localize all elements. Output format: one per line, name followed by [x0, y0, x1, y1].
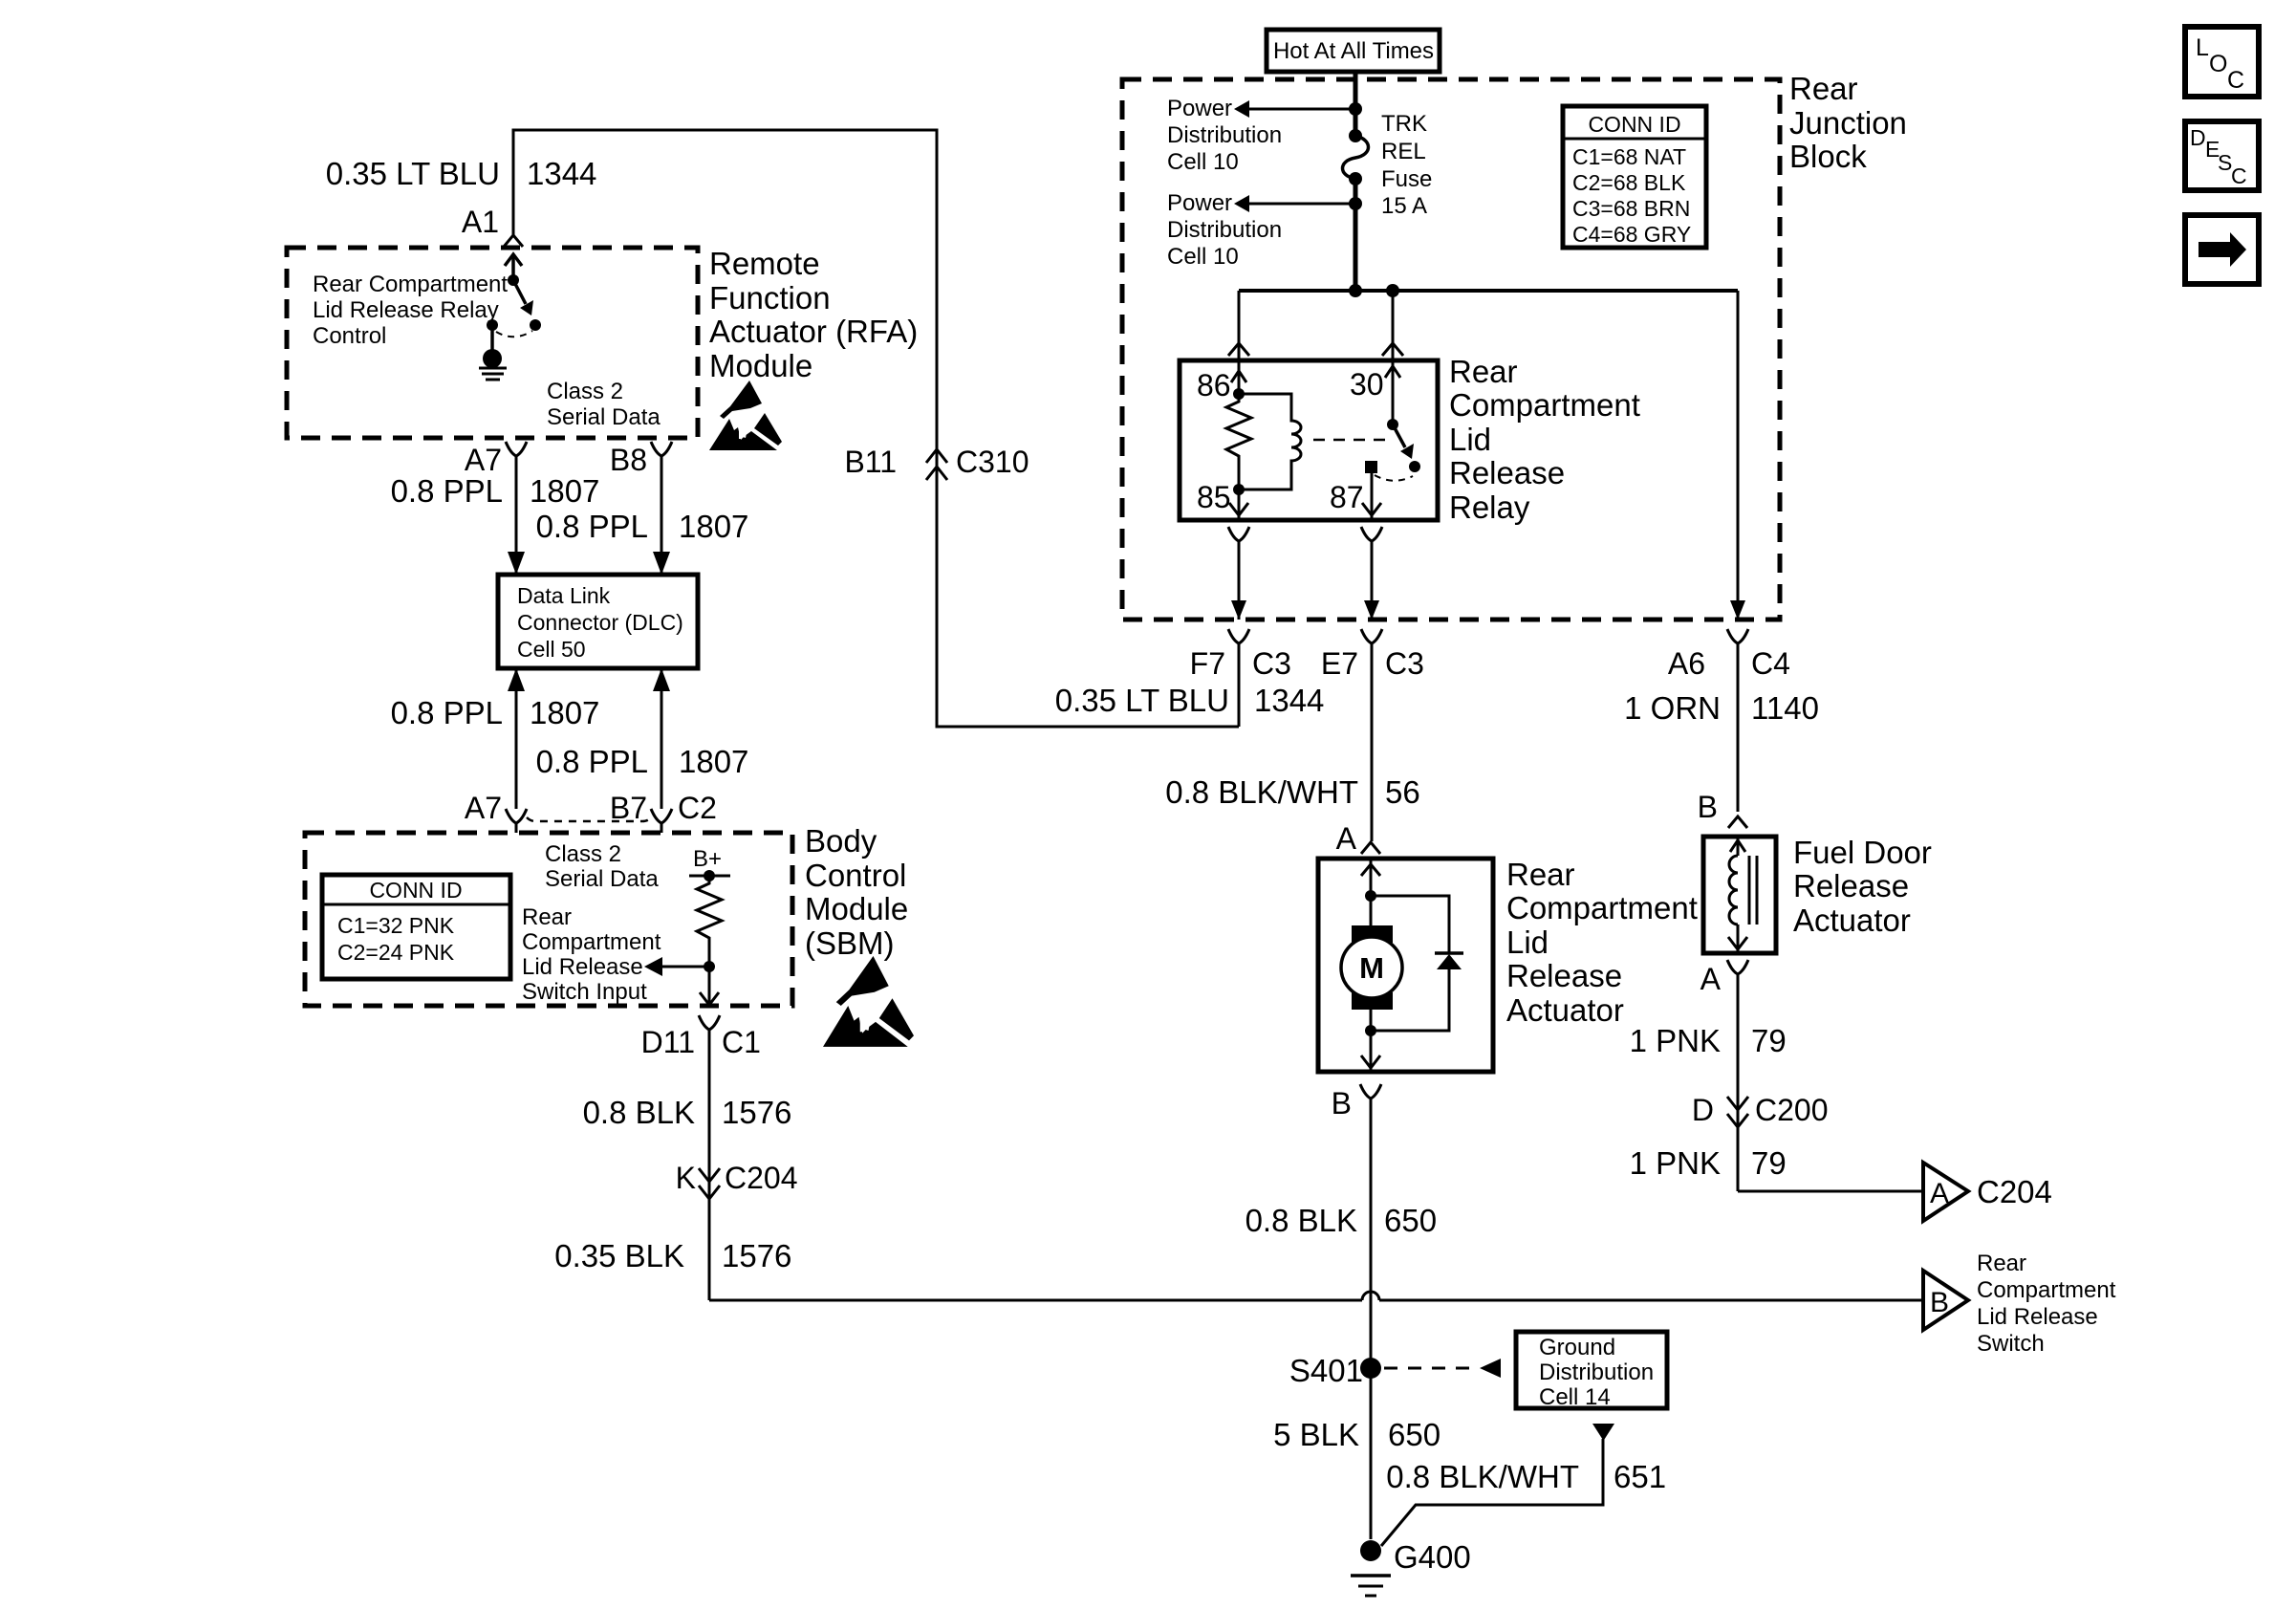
- wire switch feed (RFA): [505, 254, 522, 286]
- label 0.8 PPL 1807 (A7-DLC): [391, 473, 600, 509]
- dashed connector join (BCM C2): [527, 817, 651, 821]
- wire fuse to branch: [1354, 179, 1358, 293]
- connector B7 C2 (BCM): [610, 791, 717, 833]
- connector D C200: [1692, 1093, 1829, 1127]
- svg-text:Hot At All Times: Hot At All Times: [1273, 38, 1434, 64]
- svg-text:Fuse: Fuse: [1381, 166, 1432, 192]
- connector A7 (BCM): [465, 791, 527, 833]
- connector Y below relay 85: [1228, 527, 1249, 541]
- svg-text:0.35 BLK: 0.35 BLK: [554, 1238, 684, 1273]
- svg-text:Lid: Lid: [1449, 422, 1491, 457]
- svg-text:Relay: Relay: [1449, 490, 1530, 525]
- svg-text:Cell 50: Cell 50: [517, 637, 586, 662]
- ground distribution box: [1516, 1332, 1667, 1410]
- diode (actuator): [1365, 896, 1463, 1036]
- connector E7 C3: [1321, 629, 1424, 841]
- label relay name: [1449, 354, 1640, 525]
- wire branch bus: [1239, 284, 1738, 297]
- icon LOC box: [2185, 27, 2259, 97]
- svg-text:C204: C204: [725, 1161, 798, 1195]
- svg-text:Body: Body: [805, 823, 877, 859]
- label box Hot At All Times: [1267, 30, 1440, 72]
- dashed throw arc: [1375, 475, 1413, 481]
- connector triangle B switch: [1923, 1271, 1968, 1330]
- svg-text:CONN ID: CONN ID: [1588, 112, 1680, 137]
- svg-text:0.8 BLK: 0.8 BLK: [1245, 1203, 1357, 1238]
- svg-text:Lid Release: Lid Release: [1977, 1304, 2098, 1330]
- svg-text:CONN ID: CONN ID: [369, 878, 462, 903]
- connector D11 C1: [641, 1015, 761, 1300]
- label 0.35 LT BLU 1344 (F7): [1055, 683, 1325, 718]
- wire actuator feed: [1361, 859, 1380, 925]
- svg-text:Lid: Lid: [1506, 925, 1549, 960]
- dashed link coil to contacts: [1313, 439, 1386, 442]
- svg-text:REL: REL: [1381, 139, 1426, 164]
- label RFA module: [709, 246, 918, 383]
- svg-text:Power: Power: [1167, 96, 1232, 121]
- svg-text:0.8 PPL: 0.8 PPL: [391, 473, 503, 509]
- label 0.8 BLK 650: [1245, 1203, 1437, 1238]
- svg-text:Actuator: Actuator: [1506, 992, 1624, 1028]
- svg-text:A7: A7: [465, 443, 502, 477]
- svg-text:651: 651: [1614, 1459, 1666, 1494]
- svg-text:15 A: 15 A: [1381, 193, 1427, 219]
- dashed throw arc (RFA switch): [496, 331, 532, 337]
- ESD symbol (BCM): [823, 956, 914, 1047]
- label fuse: [1381, 111, 1432, 219]
- label class 2 serial data (BCM): [545, 841, 659, 892]
- svg-text:B: B: [1698, 790, 1718, 824]
- svg-text:Release: Release: [1449, 455, 1565, 490]
- connector B (actuator): [1332, 1084, 1381, 1539]
- label 1 ORN 1140: [1624, 690, 1819, 726]
- label 0.35 BLK 1576: [554, 1238, 791, 1273]
- icon arrow box: [2185, 215, 2259, 284]
- svg-text:Cell 10: Cell 10: [1167, 149, 1239, 175]
- svg-text:A: A: [1336, 821, 1357, 856]
- wire drop to relay 30: [1382, 291, 1403, 360]
- svg-text:(SBM): (SBM): [805, 925, 895, 961]
- wire B8 to DLC: [653, 456, 670, 575]
- svg-text:Release: Release: [1506, 958, 1622, 993]
- svg-text:D: D: [2190, 125, 2206, 150]
- svg-text:Actuator: Actuator: [1793, 903, 1911, 938]
- connector B8 (RFA): [610, 442, 672, 477]
- svg-text:C204: C204: [1977, 1174, 2052, 1209]
- wire BCM A7 to DLC: [508, 668, 525, 809]
- svg-text:Rear: Rear: [1977, 1251, 2026, 1276]
- ESD symbol (RFA): [709, 381, 782, 450]
- B+ terminal: [689, 846, 730, 881]
- svg-text:C2=24 PNK: C2=24 PNK: [337, 940, 455, 965]
- svg-text:1807: 1807: [530, 695, 599, 730]
- svg-text:87: 87: [1330, 480, 1364, 514]
- svg-text:C1=32 PNK: C1=32 PNK: [337, 913, 455, 938]
- svg-text:A: A: [1700, 962, 1722, 996]
- relay switch blade: [1393, 424, 1420, 472]
- svg-text:Rear: Rear: [1789, 71, 1858, 106]
- wire BCM D11 out: [700, 967, 719, 1006]
- svg-text:Ground: Ground: [1539, 1335, 1615, 1360]
- wire BCM B7 to DLC: [653, 668, 670, 809]
- svg-text:B8: B8: [610, 443, 647, 477]
- solenoid coil (fuel door): [1728, 837, 1757, 953]
- svg-text:C2: C2: [678, 791, 717, 825]
- label rear compartment lid release switch: [1977, 1251, 2116, 1357]
- svg-text:Compartment: Compartment: [1449, 387, 1640, 423]
- svg-text:Remote: Remote: [709, 246, 820, 281]
- svg-text:D: D: [1692, 1093, 1714, 1127]
- svg-text:Compartment: Compartment: [522, 929, 661, 955]
- label 1 PNK 79 (upper): [1630, 1023, 1787, 1058]
- svg-text:1807: 1807: [679, 509, 748, 544]
- dashed reference to ground distribution: [1384, 1359, 1501, 1378]
- label 0.8 PPL 1807 (DLC-BCM B7): [536, 744, 749, 779]
- svg-text:0.8 BLK/WHT: 0.8 BLK/WHT: [1165, 774, 1358, 810]
- wire relay 85 out: [1229, 490, 1248, 520]
- svg-text:C3: C3: [1252, 646, 1291, 681]
- fuse TRK REL 15A: [1343, 136, 1369, 179]
- wire to C204 triangle: [1738, 1190, 1923, 1193]
- svg-text:0.8 BLK: 0.8 BLK: [583, 1095, 695, 1130]
- node switch input: [704, 961, 715, 972]
- connector chevron B (fuel door): [1728, 816, 1747, 828]
- svg-text:1 ORN: 1 ORN: [1624, 690, 1721, 726]
- motor M (actuator): [1341, 925, 1402, 1010]
- connector chevron A (actuator): [1361, 842, 1380, 854]
- label actuator name: [1506, 857, 1698, 1028]
- wire relay 87 out: [1362, 468, 1381, 520]
- svg-text:C3: C3: [1385, 646, 1424, 681]
- svg-text:A7: A7: [465, 791, 502, 825]
- svg-text:M: M: [1359, 951, 1384, 985]
- svg-text:Distribution: Distribution: [1167, 217, 1282, 243]
- svg-text:0.8 PPL: 0.8 PPL: [391, 695, 503, 730]
- label power distribution 2: [1167, 190, 1282, 270]
- ground G400: [1351, 1539, 1471, 1596]
- svg-text:Cell 14: Cell 14: [1539, 1384, 1611, 1410]
- svg-text:C3=68 BRN: C3=68 BRN: [1572, 196, 1690, 221]
- label 0.8 BLK/WHT 651: [1386, 1459, 1666, 1494]
- svg-text:1344: 1344: [527, 156, 596, 191]
- resistor (BCM pull-up): [697, 876, 722, 967]
- svg-text:Compartment: Compartment: [1506, 890, 1698, 925]
- svg-text:Serial Data: Serial Data: [545, 866, 659, 892]
- svg-text:Control: Control: [313, 323, 386, 349]
- svg-text:5 BLK: 5 BLK: [1273, 1417, 1359, 1452]
- svg-text:Block: Block: [1789, 139, 1867, 174]
- svg-text:Compartment: Compartment: [1977, 1277, 2116, 1303]
- connector K C204: [676, 1161, 798, 1199]
- relay contact 87: [1365, 461, 1377, 473]
- svg-text:B+: B+: [693, 846, 722, 872]
- wire 87 to E7: [1364, 541, 1379, 620]
- svg-text:C: C: [2227, 67, 2244, 94]
- svg-text:Distribution: Distribution: [1539, 1360, 1654, 1385]
- wire A1 feed run: [513, 130, 1239, 727]
- svg-text:30: 30: [1350, 367, 1384, 402]
- svg-text:1344: 1344: [1254, 683, 1324, 718]
- svg-text:0.8 PPL: 0.8 PPL: [536, 509, 648, 544]
- icon DESC box: [2185, 121, 2259, 190]
- svg-text:Serial Data: Serial Data: [547, 404, 661, 430]
- svg-text:TRK: TRK: [1381, 111, 1427, 137]
- svg-text:B: B: [1332, 1086, 1352, 1120]
- label 1 PNK 79 (lower): [1630, 1145, 1787, 1181]
- svg-text:1 PNK: 1 PNK: [1630, 1145, 1721, 1181]
- label fuel door actuator: [1793, 835, 1932, 938]
- RFA module dashed box: [287, 248, 698, 438]
- svg-text:1140: 1140: [1751, 690, 1819, 726]
- svg-text:Data Link: Data Link: [517, 583, 611, 608]
- wire A7 to DLC: [508, 456, 525, 575]
- svg-text:79: 79: [1751, 1145, 1787, 1181]
- svg-text:Lid Release Relay: Lid Release Relay: [313, 297, 499, 323]
- svg-text:1807: 1807: [679, 744, 748, 779]
- wire 651 from ground distribution: [1381, 1424, 1614, 1546]
- wire bus to A6: [1730, 291, 1745, 620]
- BCM dashed box: [305, 833, 792, 1006]
- svg-text:Actuator (RFA): Actuator (RFA): [709, 314, 918, 349]
- wire power distribution tap 1: [1234, 100, 1362, 118]
- svg-text:Rear Compartment: Rear Compartment: [313, 272, 508, 297]
- svg-text:G400: G400: [1394, 1539, 1471, 1575]
- label 0.8 BLK/WHT 56: [1165, 774, 1419, 810]
- svg-text:Module: Module: [805, 891, 908, 926]
- svg-text:C4=68 GRY: C4=68 GRY: [1572, 222, 1691, 247]
- svg-text:Switch: Switch: [1977, 1331, 2045, 1357]
- svg-text:1807: 1807: [530, 473, 599, 509]
- svg-text:Function: Function: [709, 280, 831, 315]
- label 0.8 PPL 1807 (B8-DLC): [536, 509, 749, 544]
- svg-text:Junction: Junction: [1789, 105, 1907, 141]
- svg-text:C200: C200: [1755, 1093, 1829, 1127]
- svg-text:86: 86: [1197, 368, 1231, 402]
- svg-text:S401: S401: [1289, 1353, 1363, 1388]
- label 5 BLK 650: [1273, 1417, 1440, 1452]
- label 0.8 PPL 1807 (DLC-BCM A7): [391, 695, 600, 730]
- switch blade (RFA relay control): [513, 280, 533, 315]
- wire 85 to F7: [1231, 541, 1246, 620]
- switch contacts: [487, 319, 498, 331]
- svg-text:Power: Power: [1167, 190, 1232, 216]
- svg-text:56: 56: [1385, 774, 1420, 810]
- wire actuator out: [1361, 1010, 1380, 1072]
- connector A (fuel door): [1700, 960, 1748, 1191]
- label class 2 serial data (RFA): [547, 379, 661, 430]
- svg-text:L: L: [2196, 34, 2209, 61]
- svg-text:Connector (DLC): Connector (DLC): [517, 610, 683, 635]
- svg-text:Rear: Rear: [1449, 354, 1518, 389]
- fuel door actuator box: [1703, 837, 1776, 953]
- wire long switch run: [709, 1292, 1923, 1300]
- splice S401: [1289, 1353, 1381, 1388]
- svg-text:Class 2: Class 2: [547, 379, 623, 404]
- svg-text:C1: C1: [722, 1025, 761, 1059]
- label switch input: [522, 904, 661, 1005]
- DLC box: [498, 575, 698, 668]
- svg-text:C: C: [2231, 163, 2247, 188]
- connector chevron A1: [504, 235, 523, 247]
- wire switch input arrow: [644, 957, 709, 976]
- svg-text:Fuel Door: Fuel Door: [1793, 835, 1932, 870]
- svg-text:Lid Release: Lid Release: [522, 954, 643, 980]
- svg-text:0.8 PPL: 0.8 PPL: [536, 744, 648, 779]
- connector C310 B11: [844, 445, 1029, 480]
- connector A7 (RFA): [465, 442, 527, 477]
- svg-text:C310: C310: [956, 445, 1029, 479]
- conn id table (junction block): [1563, 106, 1706, 248]
- ground (RFA internal): [479, 325, 507, 380]
- svg-text:Cell 10: Cell 10: [1167, 244, 1239, 270]
- svg-text:C4: C4: [1751, 646, 1790, 681]
- svg-text:Class 2: Class 2: [545, 841, 621, 867]
- svg-text:A6: A6: [1668, 646, 1705, 681]
- svg-text:Rear: Rear: [1506, 857, 1575, 892]
- connector triangle A C204: [1923, 1163, 2052, 1221]
- svg-text:Release: Release: [1793, 868, 1909, 903]
- svg-text:650: 650: [1384, 1203, 1437, 1238]
- svg-text:A: A: [1930, 1178, 1949, 1209]
- wire drop to relay 86: [1228, 291, 1249, 360]
- relay switch pivot: [1385, 360, 1400, 430]
- svg-text:79: 79: [1751, 1023, 1787, 1058]
- connector F7 C3: [1190, 629, 1291, 727]
- svg-text:B7: B7: [610, 791, 647, 825]
- svg-text:Rear: Rear: [522, 904, 572, 930]
- svg-text:0.35 LT BLU: 0.35 LT BLU: [1055, 683, 1229, 718]
- wire battery feed: [1354, 72, 1358, 136]
- svg-text:1 PNK: 1 PNK: [1630, 1023, 1721, 1058]
- svg-text:C1=68 NAT: C1=68 NAT: [1572, 144, 1686, 169]
- label 0.35 LT BLU 1344 (A1): [326, 156, 597, 191]
- svg-text:0.35 LT BLU: 0.35 LT BLU: [326, 156, 500, 191]
- label Rear Junction Block: [1789, 71, 1907, 174]
- svg-text:Control: Control: [805, 858, 906, 893]
- coil (relay): [1239, 394, 1301, 490]
- svg-text:C2=68 BLK: C2=68 BLK: [1572, 170, 1686, 195]
- actuator box: [1318, 859, 1493, 1072]
- svg-text:1576: 1576: [722, 1238, 791, 1273]
- svg-text:B: B: [1930, 1287, 1949, 1318]
- connector A6 C4: [1668, 629, 1790, 812]
- svg-text:A1: A1: [462, 205, 499, 239]
- wire power distribution tap 2: [1234, 195, 1362, 212]
- svg-text:D11: D11: [641, 1025, 695, 1059]
- label power distribution 1: [1167, 96, 1282, 175]
- svg-text:Distribution: Distribution: [1167, 122, 1282, 148]
- svg-text:K: K: [676, 1161, 696, 1195]
- connector Y below relay 87: [1361, 527, 1382, 541]
- svg-text:Module: Module: [709, 348, 812, 383]
- conn id table (BCM): [322, 875, 510, 979]
- svg-text:E7: E7: [1321, 646, 1358, 681]
- svg-text:0.8 BLK/WHT: 0.8 BLK/WHT: [1386, 1459, 1579, 1494]
- svg-text:F7: F7: [1190, 646, 1225, 681]
- label 0.8 BLK 1576: [583, 1095, 792, 1130]
- svg-text:650: 650: [1388, 1417, 1440, 1452]
- relay box: [1180, 360, 1438, 520]
- svg-text:1576: 1576: [722, 1095, 791, 1130]
- resistor (relay): [1226, 394, 1251, 490]
- label BCM: [805, 823, 908, 961]
- svg-text:O: O: [2209, 51, 2227, 77]
- svg-text:B11: B11: [844, 445, 897, 479]
- rear junction block dashed box: [1122, 79, 1780, 620]
- label relay control: [313, 272, 508, 349]
- svg-text:Switch Input: Switch Input: [522, 979, 647, 1005]
- svg-text:85: 85: [1197, 480, 1231, 514]
- wire relay coil feed: [1231, 360, 1246, 400]
